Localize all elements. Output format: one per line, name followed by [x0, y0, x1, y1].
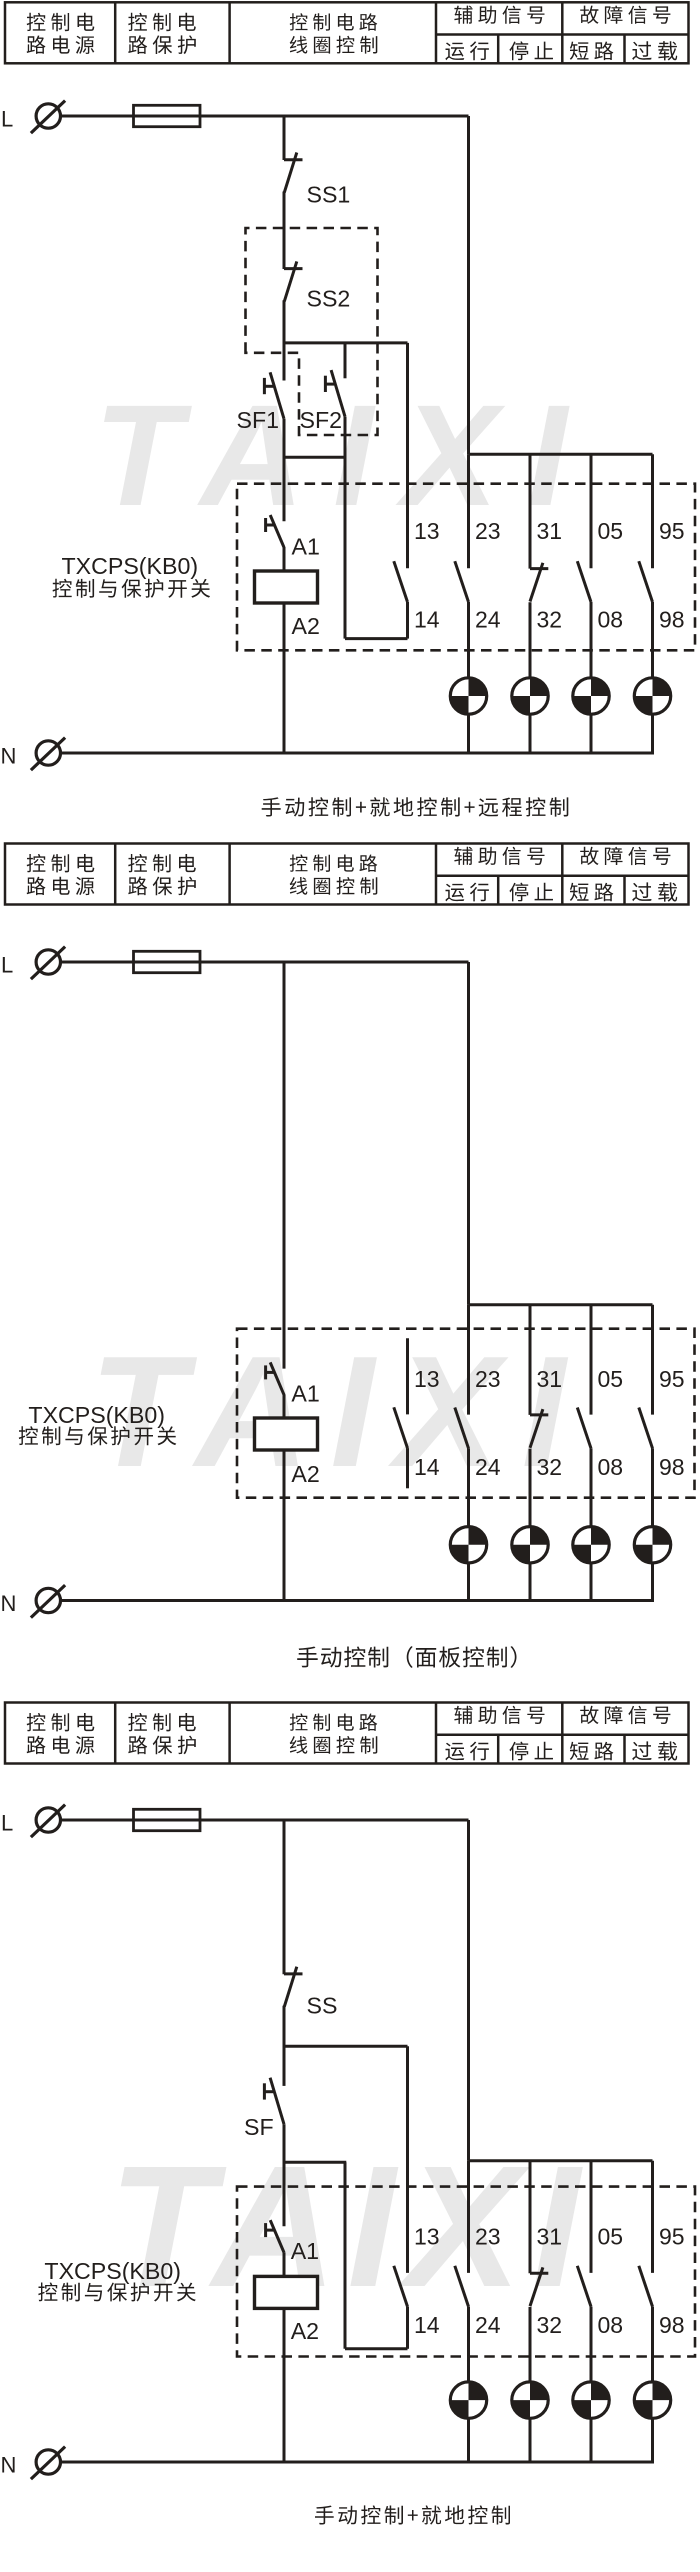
svg-text:TAIXI: TAIXI	[109, 2129, 591, 2323]
cell: 控制电路线圈控制	[290, 1714, 378, 1754]
svg-text:SF2: SF2	[300, 407, 343, 433]
wire: SF1 upper stub	[283, 343, 286, 381]
svg-text:L: L	[1, 107, 13, 132]
svg-text:23: 23	[475, 518, 501, 544]
wire: right feeder drop (diagram 3)	[467, 1820, 470, 2161]
cell: 过载	[632, 882, 677, 901]
wire: SF2 lower stub	[344, 417, 347, 459]
terminal L: circle with slash	[31, 947, 65, 980]
svg-text:98: 98	[659, 607, 685, 633]
contact short-circuit signal of CPS (pins 05-08)	[577, 1305, 591, 1527]
cell: 控制电路保护	[128, 13, 196, 54]
cell: 控制电路电源	[27, 854, 95, 895]
terminal L: circle with slash	[31, 101, 65, 134]
svg-text:32: 32	[537, 2312, 563, 2338]
cell: 故障信号	[580, 6, 670, 24]
cell: 过载	[632, 1741, 677, 1760]
dashed enclosure: local control (SS2) and remote control (SF2) groups	[246, 228, 378, 435]
cell: 运行	[445, 883, 489, 902]
contact hold of CPS (pins 13-14)	[394, 343, 408, 639]
cell: 控制电路保护	[128, 1713, 196, 1754]
switch SS1 (NC contact with bar)	[284, 153, 303, 193]
wire: L phase bus to right feeder	[61, 115, 469, 118]
svg-text:TXCPS(KB0): TXCPS(KB0)	[44, 2258, 181, 2284]
svg-text:05: 05	[598, 1366, 624, 1392]
svg-text:32: 32	[537, 1454, 563, 1480]
caption: 手动控制+就地控制	[315, 2505, 510, 2524]
terminal N: circle with slash	[31, 1585, 65, 1618]
svg-text:TXCPS(KB0): TXCPS(KB0)	[62, 553, 199, 579]
pushbutton SF (NO, manual actuator)	[264, 2078, 284, 2125]
fuse FU	[134, 951, 201, 972]
wire: hold-circuit return bottom	[345, 637, 408, 640]
wire: hold-circuit return drop	[344, 457, 347, 638]
svg-text:L: L	[1, 953, 13, 978]
svg-text:13: 13	[414, 2223, 440, 2249]
wire: switch to coil	[283, 547, 286, 571]
cell: 控制电路线圈控制	[290, 13, 378, 53]
manual operating switch of CPS (coil circuit)	[266, 1362, 284, 1394]
wire: lamp HL2 to N bus	[529, 714, 532, 754]
wire: lamp HL3 to N bus	[590, 714, 593, 754]
svg-text:95: 95	[659, 2223, 685, 2249]
wire: SS to junction	[283, 2006, 286, 2048]
svg-text:A1: A1	[292, 534, 320, 560]
svg-text:24: 24	[475, 1454, 501, 1480]
cell: 运行	[445, 41, 489, 60]
svg-text:N: N	[1, 1591, 17, 1616]
wire: SF output into CPS coil switch	[283, 457, 286, 521]
wire: lamp HL3 to N bus (diagram 2)	[590, 1563, 593, 1602]
fuse FU	[134, 105, 201, 126]
wire: N neutral bus (diagram 3)	[61, 2461, 654, 2464]
contact stop signal of CPS (pins 31-32)	[530, 1305, 548, 1527]
svg-text:95: 95	[659, 518, 685, 544]
svg-text:23: 23	[475, 2223, 501, 2249]
contact overload signal of CPS (pins 95-98)	[639, 454, 653, 678]
terminal L: circle with slash	[31, 1805, 65, 1838]
wire: right feeder drop (diagram 2)	[467, 962, 470, 1305]
wire: lamp HL4 to N bus (diagram 2)	[651, 1563, 654, 1602]
svg-text:N: N	[1, 744, 17, 769]
wire: hold-circuit return bottom (diagram 3)	[345, 2347, 408, 2350]
device label TXCPS(KB0) 控制与保护开关	[53, 553, 211, 598]
wire: coil A2 down to N bus (diagram 3)	[283, 2308, 286, 2462]
manual operating switch of CPS (coil circuit)	[266, 2220, 284, 2252]
svg-text:A1: A1	[291, 2238, 319, 2264]
cell: 停止	[509, 883, 553, 902]
svg-text:SS2: SS2	[307, 286, 351, 312]
cell: 故障信号	[580, 847, 670, 865]
svg-text:SS1: SS1	[307, 182, 351, 208]
device label TXCPS(KB0) 控制与保护开关	[19, 1402, 177, 1445]
header table (diagram 2): control-circuit column headings	[5, 844, 689, 905]
cell: 控制电路保护	[128, 854, 196, 895]
wire: right feeder drop from L bus	[467, 116, 470, 454]
cell: 短路	[570, 1742, 614, 1761]
svg-text:A2: A2	[292, 613, 320, 639]
dashed enclosure: TXCPS(KB0) device boundary (diagram 3)	[237, 2187, 695, 2357]
terminal N: circle with slash	[31, 738, 65, 771]
wire: auxiliary contact bus (diagram 3)	[469, 2159, 653, 2162]
wire: L phase bus (diagram 3)	[61, 1819, 469, 1822]
svg-text:13: 13	[414, 1366, 440, 1392]
wire: switch to coil	[283, 2252, 286, 2276]
pushbutton SF2 (NO, manual actuator)	[325, 370, 345, 417]
svg-text:SS: SS	[307, 1993, 338, 2019]
wire: SF2 upper stub	[344, 343, 347, 378]
indicator lamp HL1 run	[450, 678, 486, 714]
indicator lamp HL3 short-circuit	[573, 2382, 609, 2418]
indicator lamp HL2 stop	[512, 2382, 548, 2418]
wire: auxiliary contact bus	[469, 453, 653, 456]
svg-text:95: 95	[659, 1366, 685, 1392]
wire: junction row feeding SF branches and hold contact 13	[284, 341, 408, 344]
indicator lamp HL4 overload	[634, 678, 670, 714]
wire: hold-circuit return drop (diagram 3)	[344, 2162, 347, 2349]
cell: 停止	[509, 41, 553, 60]
indicator lamp HL4 overload	[634, 2382, 670, 2418]
indicator lamp HL1 run	[450, 1527, 486, 1563]
svg-text:32: 32	[537, 607, 563, 633]
svg-text:31: 31	[537, 2223, 563, 2249]
svg-text:08: 08	[598, 607, 624, 633]
wire: lamp HL4 to N bus (diagram 3)	[651, 2418, 654, 2463]
wire: coil A2 down to N bus	[283, 603, 286, 753]
contact run signal of CPS (pins 23-24)	[455, 454, 469, 678]
indicator lamp HL4 overload	[634, 1527, 670, 1563]
wire: lamp HL4 to N bus	[651, 714, 654, 754]
wire: N neutral bus	[61, 752, 654, 755]
cell: 运行	[445, 1742, 489, 1761]
contact overload signal of CPS (pins 95-98)	[639, 2161, 653, 2382]
indicator lamp HL2 stop	[512, 678, 548, 714]
header table (diagram 3): control-circuit column headings	[5, 1703, 689, 1764]
wire: main drop L to CPS coil switch	[283, 962, 286, 1369]
indicator lamp HL1 run	[450, 2382, 486, 2418]
wire: coil A2 down to N bus	[283, 1450, 286, 1601]
wire: SF lower stub	[283, 2124, 286, 2163]
svg-text:05: 05	[598, 518, 624, 544]
wire: junction joining SF1/SF2 outputs	[284, 456, 346, 459]
switch SS (NC contact with bar)	[284, 1967, 303, 2007]
svg-text:SF1: SF1	[237, 407, 280, 433]
contact short-circuit signal of CPS (pins 05-08)	[577, 2161, 591, 2382]
terminal N: circle with slash	[31, 2447, 65, 2480]
wire: SS1 to SS2	[283, 192, 286, 270]
cell: 过载	[632, 41, 677, 60]
contact run signal of CPS (pins 23-24)	[455, 2161, 469, 2382]
contact run signal of CPS (pins 23-24)	[455, 1305, 469, 1527]
wire: lamp HL2 to N bus (diagram 2)	[529, 1563, 532, 1602]
svg-text:L: L	[1, 1811, 13, 1836]
cell: 短路	[570, 42, 614, 61]
coil A1-A2 of CPS contactor (diagram 2)	[255, 1418, 318, 1450]
wire: SF upper stub	[283, 2046, 286, 2086]
cell: 辅助信号	[454, 847, 544, 865]
svg-text:98: 98	[659, 2312, 685, 2338]
wire: N neutral bus (diagram 2)	[61, 1599, 654, 1602]
wire: junction row feeding SF and hold contact 13 (diagram 3)	[284, 2045, 408, 2048]
cell: 故障信号	[580, 1706, 670, 1724]
header table (diagram 1): control-circuit column headings	[5, 2, 689, 63]
svg-text:31: 31	[537, 518, 563, 544]
cell: 短路	[570, 883, 614, 902]
wire: lamp HL3 to N bus (diagram 3)	[590, 2418, 593, 2463]
wire: lamp HL1 to N bus (diagram 3)	[467, 2418, 470, 2463]
coil A1-A2 of CPS contactor (diagram 3)	[255, 2276, 318, 2308]
svg-text:23: 23	[475, 1366, 501, 1392]
svg-text:N: N	[1, 2453, 17, 2478]
wire: lamp HL2 to N bus (diagram 3)	[529, 2418, 532, 2463]
wire: main drop from L bus (diagram 3)	[283, 1820, 286, 1974]
indicator lamp HL3 short-circuit	[573, 1527, 609, 1563]
svg-text:14: 14	[414, 1454, 440, 1480]
wire: lamp HL1 to N bus (diagram 2)	[467, 1563, 470, 1602]
pushbutton SF1 (NO, manual actuator)	[264, 372, 284, 419]
svg-text:A1: A1	[291, 1381, 319, 1407]
switch SS2 (NC contact with bar)	[284, 261, 303, 301]
svg-text:A2: A2	[291, 2318, 319, 2344]
svg-text:14: 14	[414, 607, 440, 633]
svg-text:08: 08	[598, 2312, 624, 2338]
cell: 控制电路电源	[27, 1713, 95, 1754]
svg-text:98: 98	[659, 1454, 685, 1480]
indicator lamp HL3 short-circuit	[573, 678, 609, 714]
wire: main drop from L bus	[283, 116, 286, 160]
caption: 手动控制+就地控制+远程控制	[262, 797, 569, 816]
dashed enclosure: TXCPS(KB0) device boundary (diagram 2)	[237, 1329, 695, 1498]
cell: 停止	[509, 1742, 553, 1761]
contact stop signal of CPS (pins 31-32)	[530, 454, 548, 678]
contact stop signal of CPS (pins 31-32)	[530, 2161, 548, 2382]
svg-text:A2: A2	[291, 1461, 319, 1487]
svg-text:SF: SF	[244, 2114, 274, 2140]
svg-text:05: 05	[598, 2223, 624, 2249]
contact short-circuit signal of CPS (pins 05-08)	[577, 454, 591, 678]
wire: L phase bus (diagram 2)	[61, 961, 469, 964]
wire: SS2 to junction	[283, 300, 286, 344]
wire: junction joining SF output and hold return	[284, 2161, 346, 2164]
wire: lamp HL1 to N bus	[467, 714, 470, 754]
svg-text:TXCPS(KB0): TXCPS(KB0)	[28, 1402, 165, 1428]
contact overload signal of CPS (pins 95-98)	[639, 1305, 653, 1527]
wire: SF1 lower stub	[283, 419, 286, 459]
svg-text:31: 31	[537, 1366, 563, 1392]
cell: 控制电路线圈控制	[290, 855, 378, 895]
cell: 辅助信号	[454, 6, 544, 24]
cell: 控制电路电源	[27, 13, 95, 54]
wire: switch to coil	[283, 1394, 286, 1418]
svg-text:24: 24	[475, 2312, 501, 2338]
svg-text:08: 08	[598, 1454, 624, 1480]
coil A1-A2 of CPS contactor	[255, 571, 318, 603]
svg-text:24: 24	[475, 607, 501, 633]
svg-text:14: 14	[414, 2312, 440, 2338]
svg-text:13: 13	[414, 518, 440, 544]
wire: SF output into CPS coil switch (diagram 3)	[283, 2162, 286, 2226]
device label TXCPS(KB0) 控制与保护开关	[38, 2258, 196, 2302]
cell: 辅助信号	[454, 1706, 544, 1724]
manual operating switch of CPS (coil circuit)	[266, 515, 284, 547]
dashed enclosure: TXCPS(KB0) device boundary (diagram 1)	[237, 484, 695, 651]
contact hold of CPS (pins 13-14)	[394, 2046, 408, 2349]
fuse FU	[134, 1809, 201, 1830]
contact hold of CPS (pins 13-14)	[394, 1338, 408, 1488]
wire: auxiliary contact bus (diagram 2)	[469, 1303, 653, 1306]
indicator lamp HL2 stop	[512, 1527, 548, 1563]
caption: 手动控制（面板控制）	[297, 1646, 516, 1668]
